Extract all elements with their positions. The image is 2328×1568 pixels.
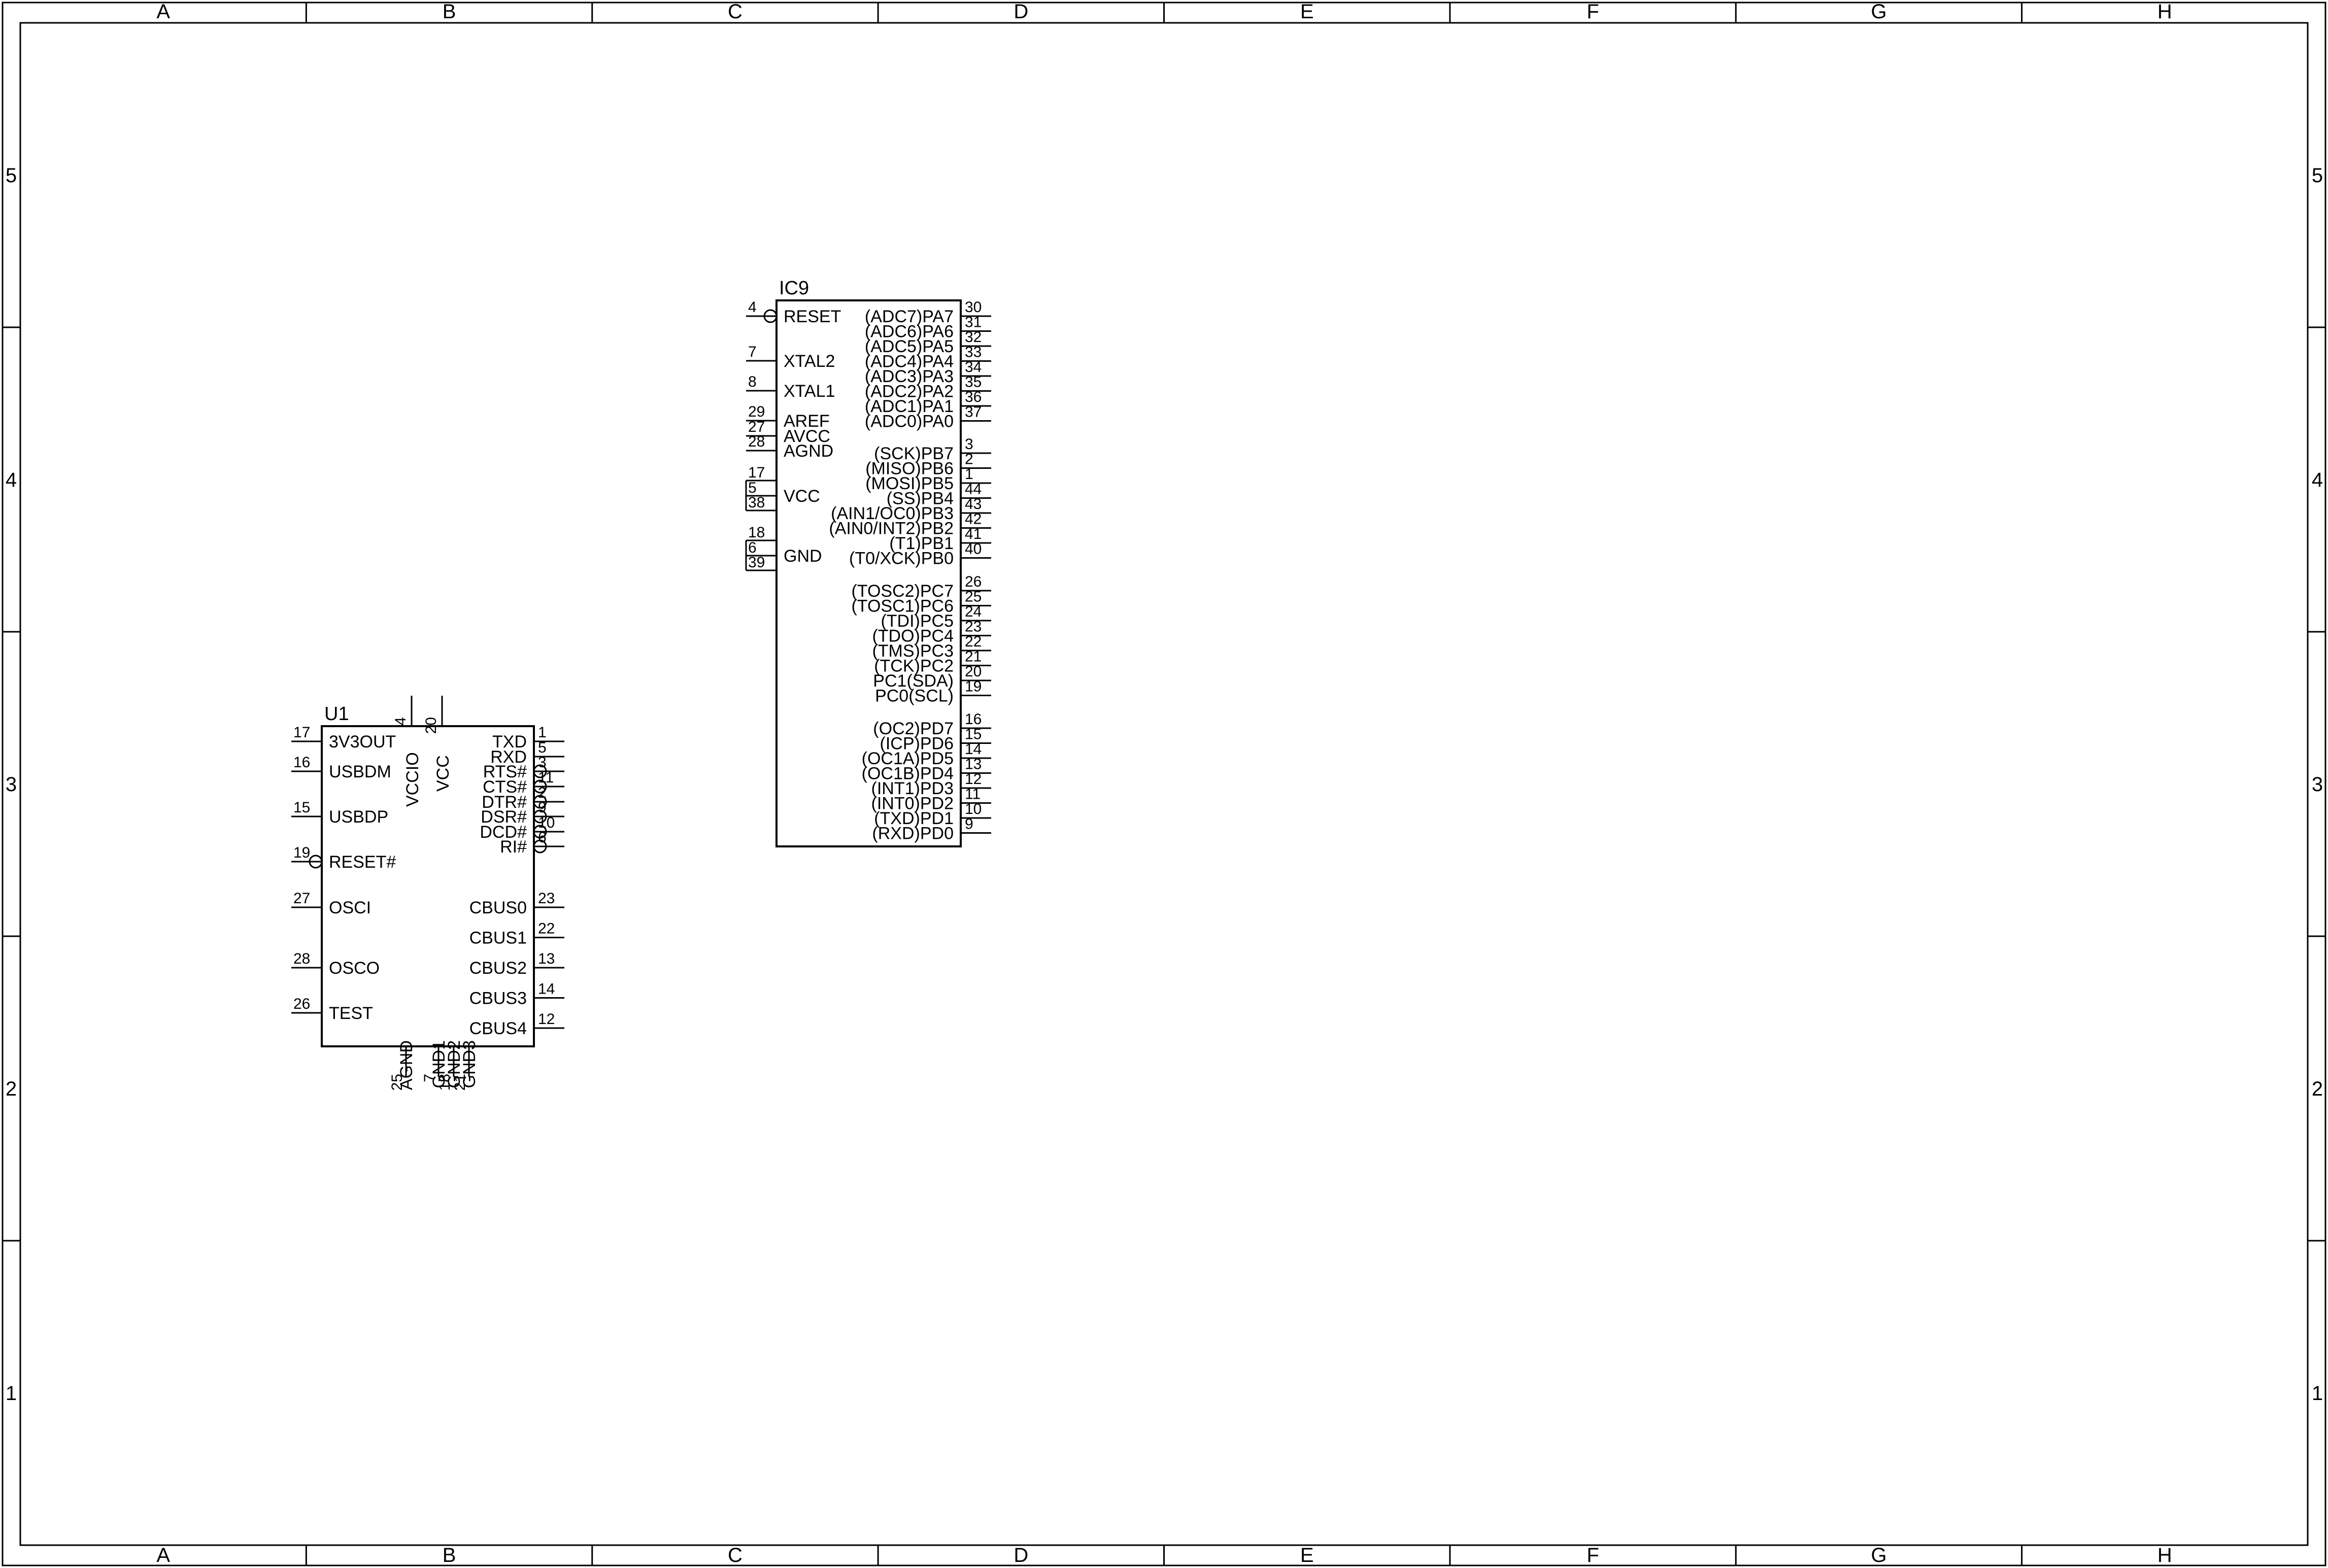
svg-text:12: 12 — [538, 1011, 555, 1028]
svg-text:(ADC0)PA0: (ADC0)PA0 — [865, 412, 954, 431]
svg-text:CBUS4: CBUS4 — [469, 1019, 527, 1038]
svg-text:CBUS0: CBUS0 — [469, 898, 527, 917]
svg-text:F: F — [1587, 1, 1599, 23]
svg-text:29: 29 — [748, 403, 765, 420]
IC9 GND pins 18 6 39 — [746, 540, 777, 541]
svg-text:16: 16 — [293, 754, 310, 771]
svg-text:3: 3 — [2312, 773, 2323, 796]
svg-text:1: 1 — [6, 1382, 17, 1405]
svg-text:18: 18 — [748, 524, 765, 541]
svg-text:17: 17 — [748, 464, 765, 481]
IC9 port D pins — [961, 728, 991, 729]
svg-text:D: D — [1014, 1, 1028, 23]
svg-text:20: 20 — [965, 663, 982, 680]
svg-text:D: D — [1014, 1544, 1028, 1566]
svg-text:38: 38 — [748, 494, 765, 511]
svg-text:XTAL2: XTAL2 — [784, 352, 835, 371]
svg-text:42: 42 — [965, 511, 982, 528]
svg-text:23: 23 — [965, 619, 982, 635]
svg-text:2: 2 — [965, 451, 973, 468]
svg-text:14: 14 — [965, 741, 982, 758]
svg-text:A: A — [156, 1544, 170, 1566]
svg-text:17: 17 — [293, 724, 310, 741]
svg-text:VCC: VCC — [433, 755, 453, 792]
svg-text:20: 20 — [423, 717, 440, 734]
svg-text:1: 1 — [965, 466, 973, 483]
IC IC9 microcontroller — [777, 300, 961, 846]
svg-text:GND3: GND3 — [460, 1040, 479, 1088]
svg-text:B: B — [443, 1, 456, 23]
svg-text:12: 12 — [965, 771, 982, 788]
svg-text:10: 10 — [965, 801, 982, 817]
svg-text:7: 7 — [748, 344, 757, 360]
svg-text:31: 31 — [965, 314, 982, 331]
svg-text:16: 16 — [965, 711, 982, 728]
svg-text:C: C — [728, 1, 743, 23]
svg-text:H: H — [2157, 1544, 2172, 1566]
svg-text:8: 8 — [748, 373, 757, 390]
svg-text:5: 5 — [2312, 164, 2323, 187]
svg-text:22: 22 — [965, 633, 982, 650]
svg-text:4: 4 — [392, 717, 409, 726]
svg-text:G: G — [1871, 1, 1886, 23]
svg-text:AGND: AGND — [397, 1040, 416, 1090]
svg-text:2: 2 — [2312, 1078, 2323, 1100]
svg-text:RESET#: RESET# — [329, 853, 396, 872]
svg-text:26: 26 — [965, 573, 982, 590]
svg-text:19: 19 — [293, 844, 310, 861]
svg-text:5: 5 — [6, 164, 17, 187]
svg-text:CBUS2: CBUS2 — [469, 959, 527, 978]
svg-text:3: 3 — [965, 436, 973, 453]
svg-text:25: 25 — [965, 589, 982, 605]
svg-text:C: C — [728, 1544, 743, 1566]
svg-text:F: F — [1587, 1544, 1599, 1566]
svg-text:14: 14 — [538, 981, 555, 998]
IC U1 USB interface — [322, 726, 534, 1046]
svg-text:USBDP: USBDP — [329, 807, 388, 827]
svg-text:B: B — [443, 1544, 456, 1566]
svg-text:15: 15 — [965, 726, 982, 743]
svg-text:IC9: IC9 — [779, 278, 809, 299]
svg-text:G: G — [1871, 1544, 1886, 1566]
U1 bottom pins grounds — [406, 1046, 407, 1077]
svg-text:OSCI: OSCI — [329, 898, 371, 917]
svg-text:PC0(SCL): PC0(SCL) — [875, 687, 954, 706]
svg-text:40: 40 — [965, 541, 982, 558]
svg-text:(RXD)PD0: (RXD)PD0 — [872, 824, 954, 843]
svg-text:23: 23 — [538, 890, 555, 907]
svg-text:34: 34 — [965, 359, 982, 376]
svg-text:E: E — [1300, 1544, 1314, 1566]
svg-text:33: 33 — [965, 344, 982, 361]
svg-text:30: 30 — [965, 299, 982, 316]
svg-text:37: 37 — [965, 404, 982, 421]
svg-text:3V3OUT: 3V3OUT — [329, 732, 396, 752]
svg-text:1: 1 — [2312, 1382, 2323, 1405]
svg-text:H: H — [2157, 1, 2172, 23]
svg-text:RESET: RESET — [784, 307, 841, 326]
U1 right pins — [534, 741, 564, 742]
svg-text:39: 39 — [748, 554, 765, 571]
svg-text:2: 2 — [6, 1078, 17, 1100]
svg-text:13: 13 — [538, 950, 555, 967]
svg-text:41: 41 — [965, 526, 982, 542]
svg-text:22: 22 — [538, 921, 555, 937]
svg-text:U1: U1 — [324, 703, 349, 725]
svg-text:AGND: AGND — [784, 441, 833, 461]
U1 CBUS pins — [534, 907, 564, 908]
svg-text:21: 21 — [965, 649, 982, 665]
svg-text:VCC: VCC — [784, 487, 820, 506]
IC9 port A pins — [961, 316, 991, 317]
svg-text:4: 4 — [6, 469, 17, 491]
svg-text:13: 13 — [965, 756, 982, 773]
svg-text:A: A — [156, 1, 170, 23]
svg-text:19: 19 — [965, 678, 982, 695]
svg-text:USBDM: USBDM — [329, 762, 391, 781]
svg-text:11: 11 — [965, 786, 981, 803]
svg-text:28: 28 — [748, 433, 765, 450]
svg-text:XTAL1: XTAL1 — [784, 382, 835, 401]
svg-text:24: 24 — [965, 603, 982, 620]
svg-text:VCCIO: VCCIO — [403, 752, 422, 807]
svg-text:27: 27 — [293, 890, 310, 907]
svg-text:4: 4 — [2312, 469, 2323, 491]
U1 top pins VCCIO VCC — [411, 696, 413, 726]
svg-text:RI#: RI# — [500, 837, 527, 857]
svg-text:26: 26 — [293, 996, 310, 1012]
svg-text:3: 3 — [6, 773, 17, 796]
svg-text:9: 9 — [965, 816, 973, 833]
svg-text:43: 43 — [965, 496, 982, 513]
svg-text:35: 35 — [965, 374, 982, 391]
svg-text:TEST: TEST — [329, 1004, 373, 1023]
svg-text:15: 15 — [293, 799, 310, 816]
svg-text:4: 4 — [748, 299, 757, 316]
svg-text:GND: GND — [784, 547, 822, 566]
svg-text:CBUS1: CBUS1 — [469, 929, 527, 948]
IC9 left pins — [746, 316, 777, 317]
svg-text:CBUS3: CBUS3 — [469, 989, 527, 1008]
svg-text:44: 44 — [965, 481, 982, 498]
U1 left pins — [291, 741, 322, 742]
svg-text:(T0/XCK)PB0: (T0/XCK)PB0 — [849, 549, 954, 568]
IC9 port C pins — [961, 590, 991, 592]
svg-text:36: 36 — [965, 389, 982, 405]
svg-text:1: 1 — [538, 724, 547, 741]
IC9 port B pins — [961, 453, 991, 454]
svg-text:E: E — [1300, 1, 1314, 23]
IC9 VCC pins 17 5 38 — [746, 480, 777, 482]
svg-text:28: 28 — [293, 950, 310, 967]
svg-text:OSCO: OSCO — [329, 959, 380, 978]
svg-text:32: 32 — [965, 329, 982, 346]
